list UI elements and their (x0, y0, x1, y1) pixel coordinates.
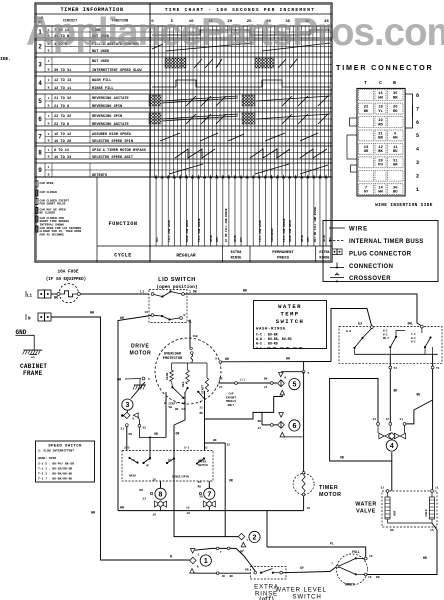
time chart header (151, 7, 329, 24)
svg-text:OR: OR (364, 150, 369, 154)
svg-text:8: 8 (38, 151, 42, 157)
svg-text:WIRE: WIRE (349, 227, 368, 233)
svg-text:WIRE INSERTION SIDE: WIRE INSERTION SIDE (375, 203, 433, 208)
terminal 5 cluster (270, 372, 302, 395)
wire start winding to terminals (200, 391, 205, 443)
svg-text:MOTOR: MOTOR (130, 351, 152, 357)
lid switch title (156, 277, 197, 290)
water level switch (275, 550, 380, 600)
svg-text:S: SLOW INTERMITTENT: S: SLOW INTERMITTENT (38, 450, 74, 453)
svg-text:OFF: OFF (329, 237, 332, 242)
svg-text:3: 3 (164, 402, 166, 405)
svg-text:RD: RD (200, 412, 204, 415)
svg-text:IDE.: IDE. (0, 56, 11, 62)
centrifugal switch (164, 386, 204, 411)
svg-text:CENT: CENT (169, 403, 176, 406)
svg-text:3WL: 3WL (407, 322, 413, 326)
svg-text:FL: FL (330, 542, 334, 546)
time chart cam traces (149, 30, 330, 174)
svg-text:21: 21 (264, 386, 268, 389)
svg-text:20: 20 (199, 496, 203, 499)
svg-text:SWITCH: SWITCH (198, 464, 208, 467)
svg-text:T-1 1 : BK-GR/RD-OR: T-1 1 : BK-GR/RD-OR (38, 467, 72, 471)
svg-text:32: 32 (227, 444, 231, 447)
svg-text:BE CLOSED: BE CLOSED (40, 212, 56, 215)
svg-text:S-1 S : BK-PU/ BK-OR: S-1 S : BK-PU/ BK-OR (38, 462, 74, 466)
svg-text:12: 12 (385, 418, 389, 421)
svg-text:EMPTY: EMPTY (345, 583, 355, 587)
svg-text:RD: RD (378, 123, 383, 127)
svg-text:21 TO 8: 21 TO 8 (54, 105, 69, 109)
svg-text:WH: WH (90, 312, 94, 316)
svg-text:31: 31 (120, 428, 124, 431)
svg-text:FILL AND WASH: FILL AND WASH (168, 220, 171, 242)
wire WH neutral bus (51, 317, 190, 560)
svg-text:BR: BR (219, 378, 223, 381)
svg-text:PROTECTOR: PROTECTOR (163, 357, 183, 361)
svg-text:9: 9 (215, 358, 217, 361)
svg-text:T1: T1 (436, 367, 440, 370)
svg-text:OR: OR (176, 432, 180, 436)
svg-text:11: 11 (435, 487, 439, 490)
svg-text:12 TO 13: 12 TO 13 (54, 79, 71, 83)
svg-text:4: 4 (390, 443, 394, 450)
wire GR to terminal 3 (131, 382, 145, 399)
svg-text:CONNECTION: CONNECTION (349, 264, 393, 270)
svg-text:6: 6 (148, 378, 150, 381)
svg-text:16 TO 28: 16 TO 28 (54, 140, 71, 144)
terminal 8 cluster (139, 479, 166, 517)
svg-text:GR: GR (393, 164, 398, 168)
svg-text:FILL AND RINSE: FILL AND RINSE (198, 218, 201, 242)
water valve coil circle 4 (386, 440, 397, 491)
svg-text:L1: L1 (27, 295, 33, 299)
svg-text:(IF SO EQUIPPED): (IF SO EQUIPPED) (46, 277, 86, 282)
wire OR centrifugal switch to speed switch (150, 392, 166, 460)
svg-text:L1: L1 (140, 290, 144, 294)
function and cycle cells (35, 177, 332, 262)
svg-text:START: START (201, 385, 204, 394)
svg-text:FUNCTION: FUNCTION (109, 221, 138, 227)
svg-text:8: 8 (159, 491, 163, 498)
svg-text:INTERNAL TIMER BUSS: INTERNAL TIMER BUSS (349, 239, 424, 245)
overload protector (163, 347, 193, 363)
svg-text:C: C (379, 80, 382, 86)
svg-text:1 SW: 1 SW (189, 290, 197, 294)
svg-text:SOAK AND HOLD: SOAK AND HOLD (186, 220, 189, 242)
svg-text:OUT OR FILL AND RINSE: OUT OR FILL AND RINSE (314, 206, 317, 242)
svg-text:WATER: WATER (355, 502, 377, 508)
drive motor terminal 9 to WH wire (215, 357, 331, 364)
svg-text:15: 15 (430, 529, 434, 532)
svg-text:BK: BK (378, 150, 383, 154)
svg-text:SELECTED SPEED AGIT: SELECTED SPEED AGIT (92, 156, 134, 160)
svg-text:SPIN: SPIN (234, 235, 237, 242)
svg-text:W-W : BU-BK, BU-RD: W-W : BU-BK, BU-RD (256, 337, 292, 341)
svg-text:Y: Y (247, 539, 249, 542)
speed switch (122, 447, 213, 482)
svg-text:WT OR FILL AND RINSE: WT OR FILL AND RINSE (225, 208, 228, 242)
svg-text:OVERLOAD: OVERLOAD (164, 353, 182, 357)
svg-text:PB: PB (129, 433, 133, 436)
svg-text:W-C : BU-RD: W-C : BU-RD (256, 342, 278, 346)
table cam rows (35, 26, 332, 178)
svg-text:REVERSING SPIN: REVERSING SPIN (92, 105, 122, 109)
svg-text:RD: RD (393, 110, 398, 114)
terminal 2 cluster (174, 531, 260, 547)
svg-text:16: 16 (307, 507, 311, 510)
svg-text:OFF: OFF (240, 237, 243, 242)
fuse 10A (57, 284, 80, 303)
svg-text:W-W: W-W (346, 330, 351, 333)
svg-text:LID SWITCH: LID SWITCH (158, 277, 196, 283)
svg-text:4F: 4F (146, 465, 150, 468)
time chart vertical grid (151, 26, 329, 177)
svg-text:W-C: W-C (383, 333, 388, 336)
cycle label columns with arrows (150, 175, 332, 246)
svg-text:RINSE: RINSE (231, 257, 243, 261)
timer connector side tabs and bracket (347, 94, 413, 172)
svg-text:H-C: H-C (411, 341, 416, 344)
svg-text:PRESS: PRESS (277, 257, 290, 261)
svg-text:WH: WH (286, 357, 290, 361)
timer connector grid (357, 80, 419, 196)
node T2 and wire BK down (389, 354, 398, 422)
svg-text:SWITCH: SWITCH (276, 318, 305, 325)
svg-text:FILL AND WASH: FILL AND WASH (259, 220, 262, 242)
svg-text:23: 23 (142, 498, 146, 501)
svg-text:6: 6 (292, 423, 296, 430)
svg-text:COOLDOWN: COOLDOWN (271, 228, 274, 242)
svg-text:T-1 7 : BK-BK/RD-BK: T-1 7 : BK-BK/RD-BK (38, 477, 72, 481)
svg-text:RINSE: RINSE (319, 257, 329, 261)
wire F2 to bus down (174, 392, 185, 537)
svg-text:12 TO 11: 12 TO 11 (54, 87, 71, 91)
svg-text:30: 30 (153, 479, 157, 482)
svg-text:WH: WH (393, 137, 398, 141)
timer motor (293, 472, 341, 511)
svg-text:7: 7 (331, 563, 333, 566)
svg-text:A5: A5 (168, 459, 172, 462)
svg-text:9: 9 (38, 168, 42, 174)
svg-text:25: 25 (198, 481, 202, 484)
svg-text:16: 16 (152, 514, 156, 517)
svg-text:HOT: HOT (394, 510, 397, 516)
svg-text:B: B (285, 377, 287, 380)
terminal 7 cluster (186, 481, 215, 515)
svg-text:BU: BU (393, 190, 398, 194)
legend box (323, 221, 438, 283)
svg-text:YL: YL (378, 110, 383, 114)
svg-text:WASH: WASH (129, 475, 136, 478)
svg-text:SOAK AND HOLD: SOAK AND HOLD (289, 220, 292, 242)
svg-text:WH: WH (378, 96, 383, 100)
wire BU terminal 1 to extra rinse switch (193, 572, 250, 578)
svg-text:REG: REG (182, 381, 185, 387)
svg-text:7: 7 (220, 551, 222, 554)
wire YL lid switch to drive motor (190, 320, 198, 348)
svg-text:BK: BK (364, 110, 369, 114)
svg-text:WH: WH (390, 529, 394, 532)
svg-text:WH: WH (378, 190, 383, 194)
svg-text:SPIN & TIMER MOTOR BYPASS: SPIN & TIMER MOTOR BYPASS (92, 149, 147, 153)
svg-text:C-C: C-C (411, 333, 416, 336)
svg-text:5-1: 5-1 (184, 447, 190, 450)
svg-text:8 TO 16: 8 TO 16 (54, 149, 69, 153)
svg-text:3: 3 (38, 63, 42, 69)
svg-text:3-O: 3-O (124, 447, 130, 450)
svg-text:FRAME: FRAME (23, 370, 43, 377)
svg-text:3: 3 (416, 160, 419, 166)
svg-text:PLUG CONNECTOR: PLUG CONNECTOR (349, 252, 412, 258)
svg-text:1: 1 (48, 97, 50, 100)
svg-text:22: 22 (258, 427, 262, 430)
svg-text:B: B (48, 105, 50, 108)
svg-text:ONLY: ONLY (228, 404, 235, 407)
wire BK 32 horizontal (205, 439, 231, 451)
svg-text:15: 15 (368, 576, 372, 579)
svg-text:7: 7 (416, 106, 419, 112)
svg-text:REVERSING AGITATE: REVERSING AGITATE (92, 97, 130, 101)
svg-text:GY: GY (240, 550, 244, 554)
svg-text:22 TO 8: 22 TO 8 (54, 123, 69, 127)
wire BK from L1 to fuse (51, 293, 58, 295)
svg-text:B: B (48, 69, 50, 72)
svg-text:FOR SHORT PULSE: FOR SHORT PULSE (40, 203, 66, 206)
svg-text:16: 16 (186, 512, 190, 515)
svg-text:B: B (48, 156, 50, 159)
svg-text:INTERMITTENT SPEED SLOW: INTERMITTENT SPEED SLOW (92, 69, 142, 73)
svg-text:10A FUSE: 10A FUSE (57, 270, 78, 275)
drive motor windings (166, 363, 209, 394)
svg-text:BR: BR (423, 556, 427, 560)
svg-text:T: T (364, 80, 367, 86)
svg-text:7: 7 (38, 135, 42, 141)
svg-text:REVERSING AGITATE: REVERSING AGITATE (92, 123, 130, 127)
svg-text:FOR 45 SECONDS: FOR 45 SECONDS (40, 234, 65, 237)
svg-text:WATER: WATER (278, 303, 302, 310)
svg-text:SLOW: SLOW (166, 373, 169, 380)
svg-text:16: 16 (369, 555, 373, 558)
svg-text:5: 5 (416, 133, 419, 139)
svg-text:CYCLE: CYCLE (114, 253, 132, 259)
svg-text:BR: BR (376, 576, 380, 579)
svg-text:WH: WH (225, 357, 229, 361)
svg-text:RINSE FILL: RINSE FILL (92, 87, 114, 91)
extra rinse switch (245, 567, 286, 600)
svg-text:REVERSING SPIN: REVERSING SPIN (92, 115, 122, 119)
svg-text:4: 4 (416, 147, 419, 153)
svg-text:SELECTED SPEED SPIN: SELECTED SPEED SPIN (92, 140, 133, 144)
svg-text:SPEED: SPEED (198, 461, 206, 464)
svg-text:SPIN: SPIN (210, 235, 213, 242)
svg-text:FULL: FULL (352, 550, 360, 554)
svg-text:1SW: 1SW (193, 335, 198, 338)
svg-text:B: B (48, 174, 50, 177)
svg-text:16 TO 33: 16 TO 33 (54, 156, 71, 160)
svg-text:TIMER CONNECTOR: TIMER CONNECTOR (336, 63, 434, 72)
svg-text:WH: WH (91, 512, 95, 516)
svg-text:22 TO 32: 22 TO 32 (54, 115, 71, 119)
svg-text:6: 6 (416, 120, 419, 126)
svg-text:BU: BU (417, 393, 421, 397)
svg-text:MODELS: MODELS (226, 400, 236, 403)
node T1 and wire BU down (406, 354, 440, 491)
svg-text:MOTOR: MOTOR (319, 492, 341, 498)
svg-text:B: B (133, 418, 135, 421)
svg-text:B: B (197, 566, 199, 569)
svg-text:BK: BK (54, 297, 59, 301)
svg-text:EXTRA: EXTRA (231, 251, 243, 255)
svg-text:5: 5 (308, 372, 310, 375)
svg-text:WH: WH (120, 316, 124, 320)
svg-text:DRIVE: DRIVE (131, 344, 149, 350)
water temp switch (339, 322, 442, 364)
wire OR terminal 13 loop (330, 379, 393, 462)
svg-text:PERMANENT: PERMANENT (272, 251, 294, 255)
svg-text:OR: OR (229, 479, 233, 483)
svg-text:CROSSOVER: CROSSOVER (349, 276, 391, 282)
svg-text:5: 5 (292, 382, 296, 389)
svg-text:ASSURED HIGH SPEED: ASSURED HIGH SPEED (92, 133, 132, 137)
svg-text:BR: BR (393, 96, 398, 100)
svg-text:WASH-RINSE: WASH-RINSE (256, 328, 286, 332)
svg-text:BK: BK (175, 408, 179, 411)
svg-text:GY: GY (364, 190, 369, 194)
svg-text:30 TO 31: 30 TO 31 (54, 69, 71, 73)
svg-text:11: 11 (399, 418, 403, 421)
svg-text:SWITCH: SWITCH (292, 593, 321, 600)
svg-text:RD: RD (258, 420, 262, 423)
svg-text:BK: BK (243, 290, 248, 294)
svg-text:BU-C: BU-C (383, 337, 390, 340)
svg-text:EXPORT: EXPORT (226, 396, 236, 399)
svg-text:TIMER: TIMER (319, 485, 338, 491)
svg-text:CAM CLOSED: CAM CLOSED (40, 191, 58, 194)
water temp switch label box (254, 301, 327, 351)
svg-text:EXTRA: EXTRA (319, 251, 330, 255)
svg-text:B: B (48, 140, 50, 143)
svg-text:SPEED SWITCH: SPEED SWITCH (48, 445, 82, 449)
svg-text:OFF: OFF (156, 237, 159, 242)
ground cabinet frame (16, 329, 48, 377)
svg-text:BR: BR (378, 137, 383, 141)
svg-text:FILL AND RINSE: FILL AND RINSE (283, 218, 286, 242)
svg-text:N: N (28, 318, 31, 322)
svg-text:OFF: OFF (216, 237, 219, 242)
svg-text:BK: BK (264, 378, 268, 381)
svg-text:1R: 1R (222, 575, 226, 578)
svg-text:KR: KR (245, 569, 249, 572)
svg-text:W-C: W-C (383, 330, 388, 333)
capacitor export models note (226, 393, 236, 407)
node 5 and wire to WH (302, 362, 309, 375)
svg-text:NOT USED: NOT USED (92, 60, 110, 64)
svg-text:16 TO 12: 16 TO 12 (54, 133, 71, 137)
svg-text:GR: GR (117, 379, 122, 383)
svg-text:WASH/ SPIN: WASH/ SPIN (38, 456, 56, 460)
svg-text:SPIN: SPIN (301, 235, 304, 242)
svg-text:2: 2 (416, 174, 419, 180)
svg-text:1: 1 (48, 166, 50, 169)
svg-text:BU: BU (393, 150, 398, 154)
svg-text:2: 2 (253, 535, 257, 542)
wire RD to terminal 6 row (205, 412, 263, 419)
svg-text:6: 6 (38, 117, 42, 123)
svg-text:8: 8 (416, 93, 419, 99)
svg-text:15: 15 (186, 507, 190, 510)
svg-text:N: N (170, 556, 172, 560)
terminal 1 cluster (190, 549, 212, 574)
svg-text:1: 1 (48, 149, 50, 152)
svg-text:22: 22 (200, 407, 204, 410)
table key of cam symbols (35, 181, 81, 237)
wire OR down to terminal 2 row (225, 443, 233, 537)
svg-text:GY: GY (300, 566, 304, 570)
svg-text:VALVE: VALVE (356, 509, 376, 515)
svg-text:16: 16 (144, 311, 148, 314)
svg-text:1: 1 (48, 79, 50, 82)
drive motor run winding to terminal 5 row (219, 378, 278, 389)
wire FL full switch (267, 511, 366, 557)
svg-text:1: 1 (416, 187, 419, 193)
svg-text:B: B (393, 80, 396, 86)
svg-text:1: 1 (48, 115, 50, 118)
svg-text:OR: OR (154, 432, 158, 436)
svg-text:WASH FILL: WASH FILL (92, 79, 111, 83)
speed switch legend box (36, 441, 95, 482)
water valve (355, 487, 439, 533)
svg-text:REGULAR: REGULAR (176, 253, 196, 259)
svg-text:13: 13 (380, 487, 384, 490)
wire BK from fuse to lid switch (80, 293, 149, 295)
svg-text:5: 5 (38, 99, 42, 105)
svg-text:OFF: OFF (307, 237, 310, 242)
cycle names row (176, 246, 330, 262)
svg-text:GND: GND (16, 329, 27, 336)
svg-text:OR: OR (139, 489, 143, 492)
svg-text:7: 7 (207, 491, 211, 498)
svg-text:BK: BK (213, 439, 217, 442)
svg-text:3: 3 (125, 402, 129, 409)
timer information table (35, 3, 332, 262)
svg-text:21: 21 (219, 386, 223, 389)
terminal 6 cluster (258, 395, 303, 437)
wire WH down to timer motor (303, 372, 305, 472)
drive motor (130, 338, 222, 404)
drive motor GR ground (117, 377, 150, 389)
svg-text:SW: SW (169, 406, 173, 409)
svg-text:B: B (48, 123, 50, 126)
svg-text:BK: BK (394, 389, 398, 393)
svg-text:WH: WH (120, 506, 124, 510)
plug connector N (26, 312, 94, 322)
wire PB terminal 3 to speed switch (126, 427, 128, 451)
svg-text:13: 13 (372, 418, 376, 421)
svg-text:PU: PU (378, 164, 383, 168)
wire WH 16 bus horizontal (118, 506, 304, 511)
svg-text:B: B (48, 87, 50, 90)
svg-text:CAP: CAP (228, 393, 233, 396)
svg-text:W: W (184, 314, 186, 317)
wire BR water valve to water level switch (367, 523, 437, 575)
wire GY terminal 1 to water level switch (195, 547, 255, 571)
svg-text:H-C : BU-RD, BK-RD, BU-OR: H-C : BU-RD, BK-RD, BU-OR (256, 346, 303, 350)
watermark (26, 11, 444, 55)
svg-text:COLD: COLD (425, 509, 428, 516)
svg-text:RD: RD (198, 486, 202, 489)
svg-text:C-C : BU-BK: C-C : BU-BK (256, 333, 278, 337)
